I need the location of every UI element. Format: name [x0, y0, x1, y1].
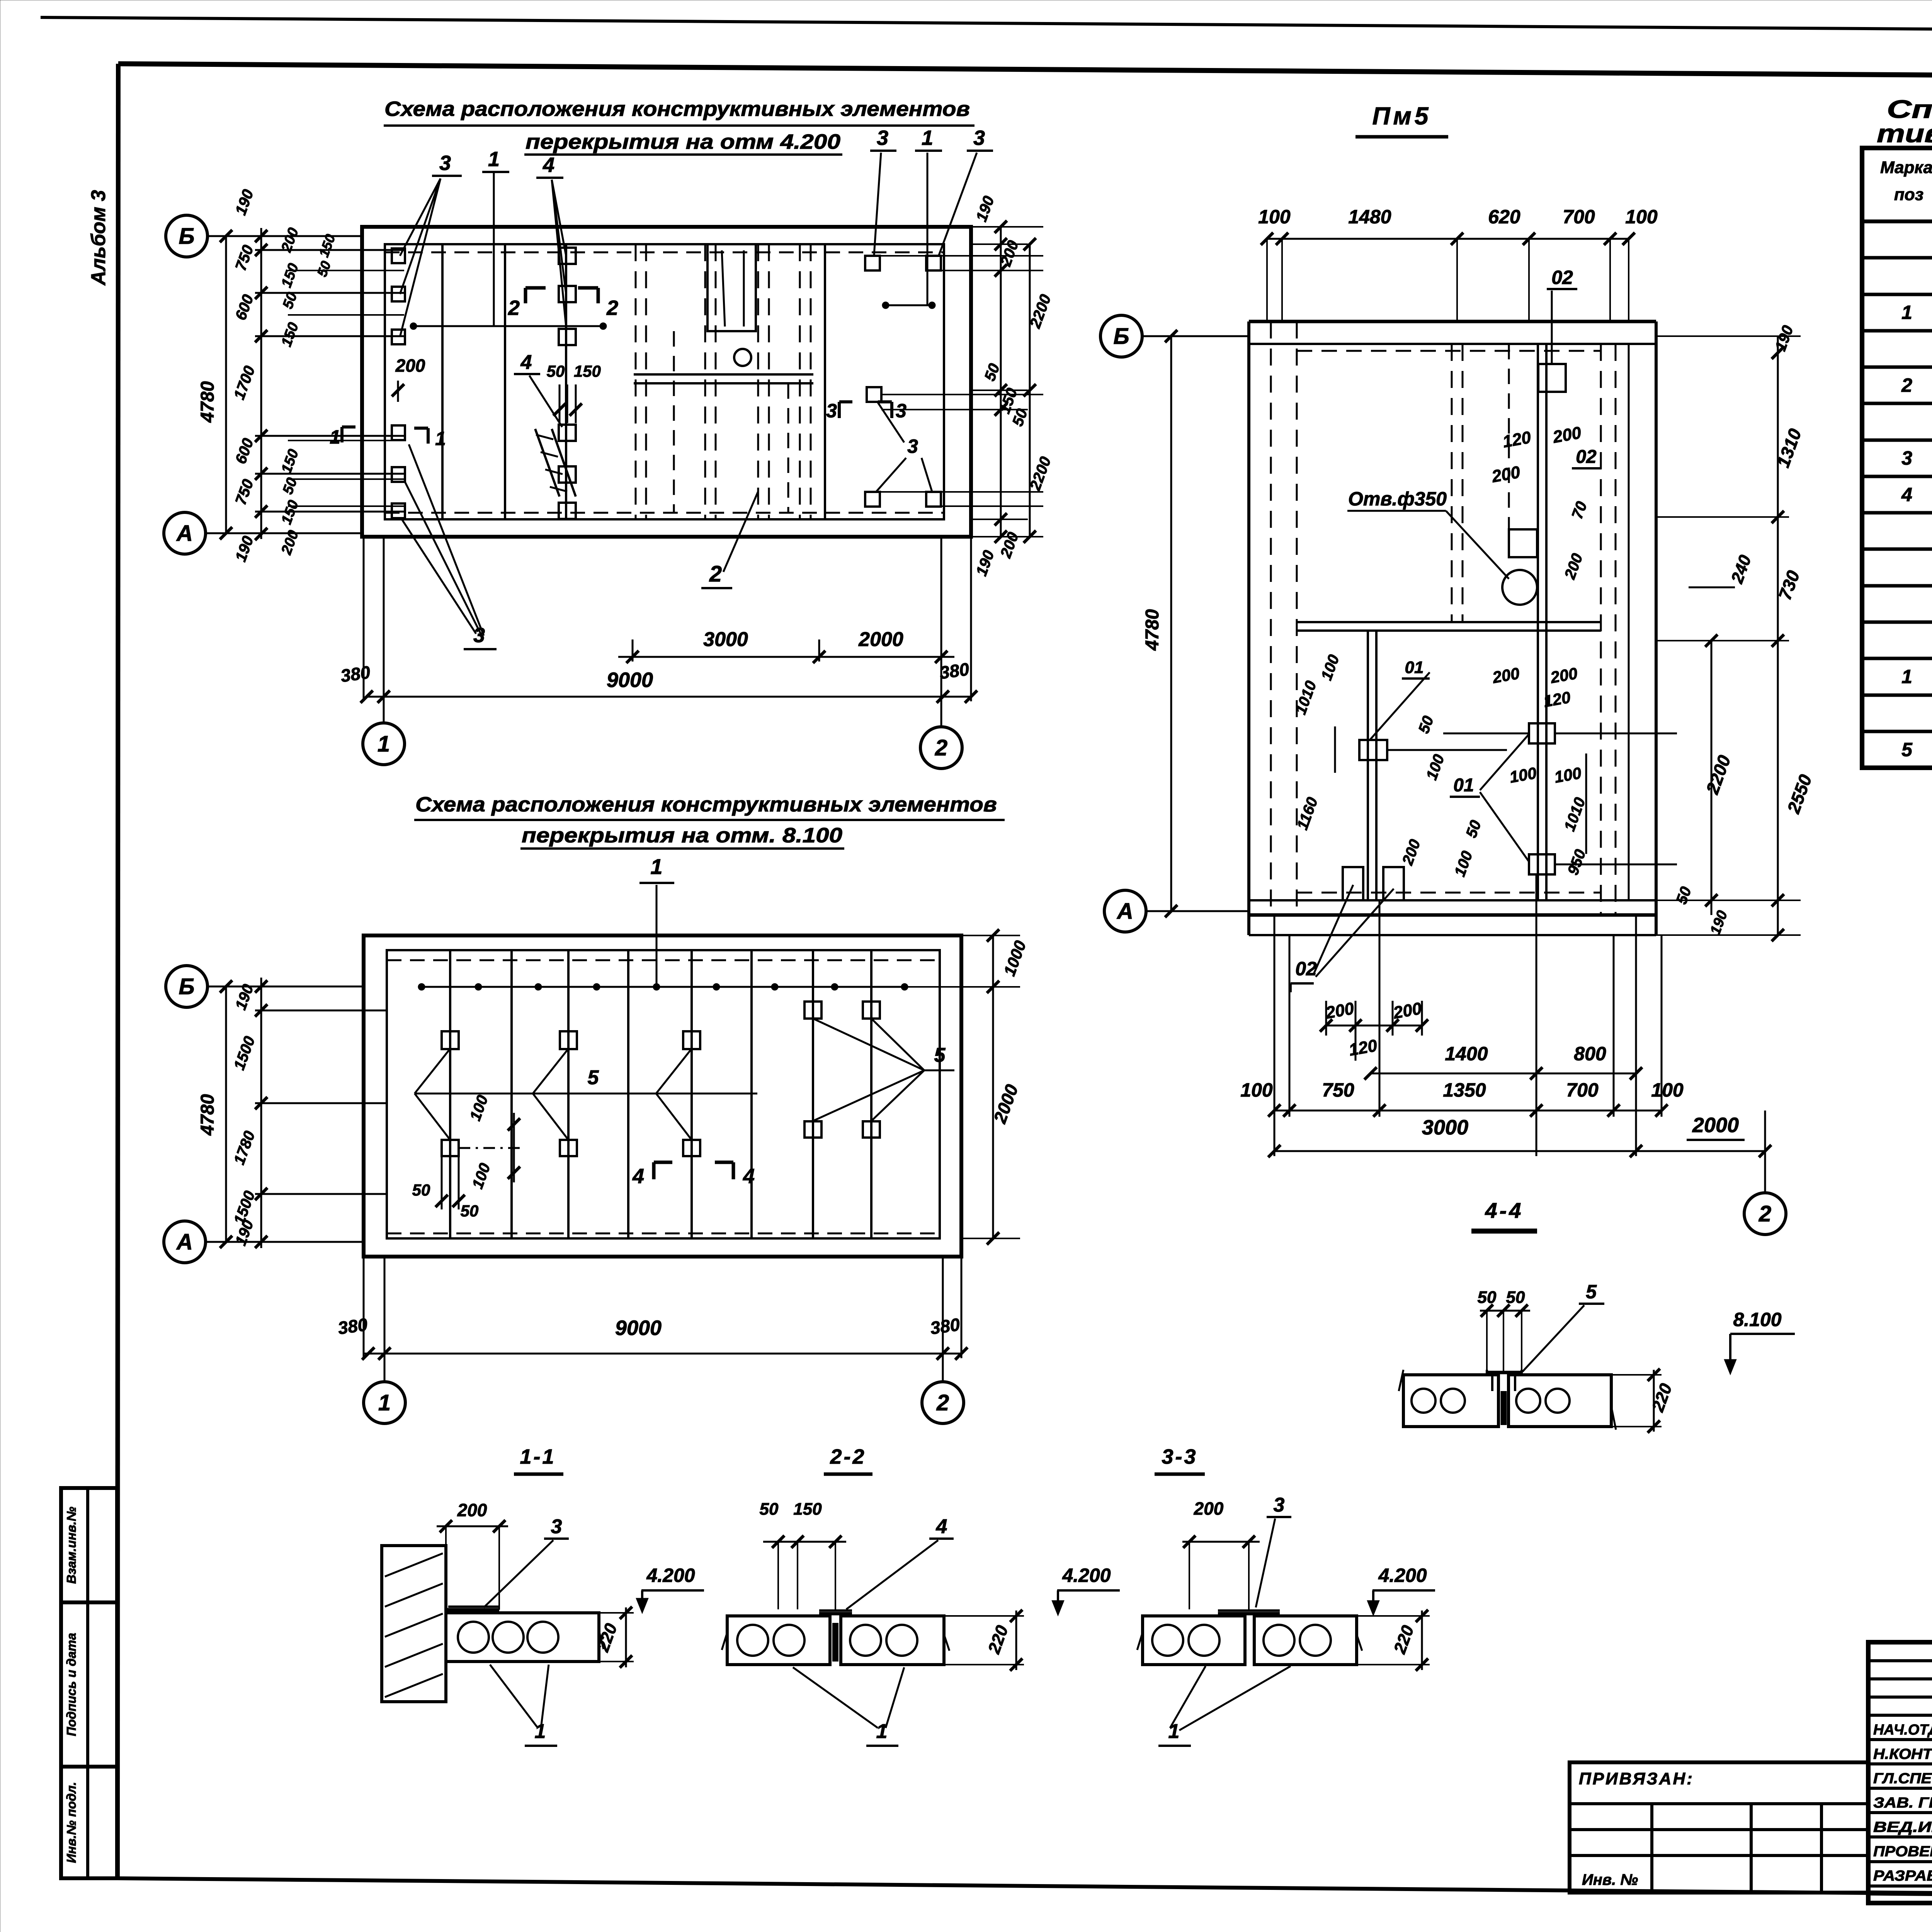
svg-text:1400: 1400	[1445, 1043, 1488, 1065]
svg-text:Схема расположения конструкт: Схема расположения конструктивных элемен…	[384, 97, 970, 121]
svg-text:2: 2	[606, 296, 618, 320]
svg-text:100: 100	[1625, 206, 1658, 228]
svg-text:А: А	[176, 521, 193, 546]
svg-text:3: 3	[973, 126, 985, 150]
svg-text:4: 4	[1901, 484, 1912, 505]
svg-text:4: 4	[632, 1165, 644, 1188]
svg-text:тивных элементов: тивных элементов	[1877, 119, 1932, 148]
svg-text:100: 100	[1258, 206, 1291, 228]
svg-text:НАЧ.ОТД.: НАЧ.ОТД.	[1873, 1722, 1932, 1738]
svg-text:Альбом 3: Альбом 3	[87, 190, 110, 286]
svg-text:50: 50	[412, 1181, 430, 1199]
svg-text:3000: 3000	[703, 628, 748, 651]
svg-text:1: 1	[435, 428, 446, 449]
svg-text:3: 3	[907, 435, 918, 457]
svg-text:3000: 3000	[1422, 1116, 1468, 1139]
svg-text:800: 800	[1574, 1043, 1606, 1065]
svg-text:2: 2	[935, 735, 947, 760]
svg-text:Отв.ф350: Отв.ф350	[1348, 488, 1447, 510]
svg-text:3: 3	[1274, 1494, 1285, 1516]
svg-text:РАЗРАБ.: РАЗРАБ.	[1873, 1868, 1932, 1884]
svg-text:4.200: 4.200	[1062, 1565, 1111, 1586]
svg-text:9000: 9000	[615, 1316, 662, 1340]
svg-text:Пм5: Пм5	[1372, 102, 1432, 130]
svg-text:4.200: 4.200	[1378, 1565, 1427, 1586]
svg-text:02: 02	[1551, 267, 1573, 288]
svg-text:9000: 9000	[607, 668, 653, 692]
svg-text:380: 380	[339, 662, 372, 686]
svg-text:01: 01	[1405, 658, 1424, 677]
svg-text:100: 100	[1240, 1079, 1273, 1101]
svg-text:1350: 1350	[1443, 1079, 1486, 1101]
svg-text:200: 200	[1194, 1498, 1224, 1519]
svg-text:2000: 2000	[858, 628, 903, 651]
svg-text:А: А	[176, 1230, 193, 1255]
svg-text:750: 750	[1322, 1079, 1354, 1101]
svg-text:2-2: 2-2	[830, 1445, 866, 1468]
svg-text:4780: 4780	[1142, 609, 1163, 651]
svg-text:1-1: 1-1	[520, 1445, 556, 1468]
svg-text:ГЛ.СПЕЧ: ГЛ.СПЕЧ	[1873, 1770, 1932, 1787]
svg-text:1: 1	[922, 126, 933, 150]
svg-text:700: 700	[1566, 1079, 1599, 1101]
svg-text:ПРОВЕР.: ПРОВЕР.	[1873, 1844, 1932, 1860]
svg-text:5: 5	[1901, 739, 1913, 760]
svg-text:02: 02	[1295, 958, 1317, 980]
svg-text:4780: 4780	[197, 381, 218, 423]
svg-text:1: 1	[1901, 666, 1912, 687]
svg-text:1: 1	[378, 1390, 391, 1415]
svg-text:3: 3	[1901, 447, 1912, 469]
svg-text:50: 50	[1478, 1288, 1497, 1307]
svg-text:50: 50	[461, 1202, 479, 1220]
svg-text:Н.КОНТР: Н.КОНТР	[1873, 1746, 1932, 1762]
svg-text:3: 3	[896, 400, 906, 422]
svg-text:2: 2	[1759, 1201, 1771, 1226]
svg-text:4: 4	[936, 1515, 947, 1538]
svg-text:Б: Б	[1113, 324, 1129, 349]
svg-text:перекрытия на отм 4.200: перекрытия на отм 4.200	[526, 130, 840, 153]
svg-text:ПРИВЯЗАН:: ПРИВЯЗАН:	[1579, 1769, 1694, 1788]
svg-text:3: 3	[551, 1515, 562, 1538]
svg-text:3: 3	[826, 400, 837, 422]
svg-text:8.100: 8.100	[1733, 1309, 1781, 1330]
svg-text:200: 200	[395, 355, 425, 376]
svg-text:Б: Б	[179, 224, 194, 249]
svg-text:3-3: 3-3	[1162, 1445, 1197, 1468]
svg-text:4-4: 4-4	[1485, 1198, 1524, 1223]
svg-text:Взам.инв.№: Взам.инв.№	[64, 1507, 78, 1584]
svg-text:Подпись и дата: Подпись и дата	[64, 1633, 78, 1736]
svg-text:поз: поз	[1894, 185, 1923, 204]
svg-text:Схема расположения конструкт: Схема расположения конструктивных элемен…	[415, 793, 997, 816]
svg-text:3: 3	[877, 126, 888, 150]
svg-text:02: 02	[1576, 447, 1597, 467]
svg-text:5: 5	[934, 1044, 946, 1066]
svg-text:ВЕД.ИК: ВЕД.ИК	[1873, 1819, 1932, 1835]
svg-text:Инв.№ подл.: Инв.№ подл.	[64, 1782, 78, 1863]
svg-text:150: 150	[793, 1500, 822, 1519]
svg-text:5: 5	[588, 1066, 599, 1089]
svg-text:1: 1	[876, 1720, 888, 1743]
svg-text:2: 2	[936, 1390, 949, 1415]
svg-text:2: 2	[508, 296, 520, 320]
svg-text:2: 2	[709, 561, 722, 587]
svg-text:1: 1	[535, 1720, 546, 1743]
svg-text:4.200: 4.200	[646, 1565, 695, 1586]
svg-text:1: 1	[650, 854, 662, 879]
svg-text:1480: 1480	[1348, 206, 1391, 228]
svg-text:200: 200	[457, 1500, 487, 1520]
svg-text:380: 380	[929, 1314, 961, 1338]
svg-text:4780: 4780	[197, 1094, 218, 1136]
svg-text:1: 1	[378, 731, 390, 757]
svg-text:4: 4	[543, 153, 554, 177]
svg-text:700: 700	[1563, 206, 1595, 228]
svg-text:Инв. №: Инв. №	[1582, 1871, 1638, 1888]
svg-text:150: 150	[574, 362, 601, 380]
svg-text:перекрытия на отм. 8.100: перекрытия на отм. 8.100	[522, 824, 842, 847]
svg-text:5: 5	[1586, 1281, 1597, 1303]
svg-text:01: 01	[1453, 775, 1474, 796]
svg-text:1: 1	[1901, 302, 1912, 323]
svg-text:ЗАВ. ГР.: ЗАВ. ГР.	[1873, 1795, 1932, 1811]
svg-text:50: 50	[547, 362, 565, 380]
svg-text:100: 100	[1651, 1079, 1684, 1101]
svg-text:Марка,: Марка,	[1880, 158, 1932, 177]
svg-text:1: 1	[488, 148, 500, 171]
svg-text:1: 1	[1168, 1720, 1180, 1743]
svg-text:3: 3	[439, 151, 451, 175]
svg-text:4: 4	[743, 1165, 755, 1188]
svg-text:2000: 2000	[1692, 1114, 1739, 1137]
svg-text:620: 620	[1488, 206, 1520, 228]
svg-text:А: А	[1116, 899, 1133, 924]
svg-text:4: 4	[520, 351, 532, 374]
svg-text:380: 380	[938, 659, 971, 683]
svg-text:2: 2	[1901, 374, 1912, 396]
svg-text:1: 1	[330, 426, 340, 448]
svg-text:50: 50	[760, 1500, 779, 1519]
svg-text:Б: Б	[179, 974, 194, 999]
